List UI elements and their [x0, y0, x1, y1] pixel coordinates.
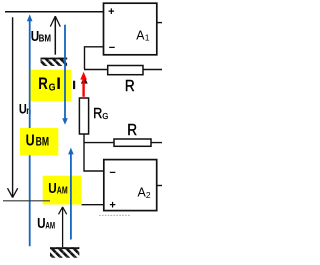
voltage arrow UAM blue (up): [68, 148, 74, 240]
op-amp A2: [104, 160, 157, 212]
svg-text:−: −: [109, 42, 115, 54]
label RG: [93, 105, 102, 121]
wire node to resistor R lower and right edge: [84, 142, 162, 144]
svg-text:−: −: [109, 167, 115, 179]
wire node to resistor R upper and right edge: [84, 69, 162, 71]
highlight box UAM yellow: [43, 176, 82, 205]
voltage arrow U blue input (left, up): [27, 14, 33, 246]
value label RG·I: [38, 75, 48, 94]
resistor R lower (horizontal): [114, 139, 151, 146]
label R (lower): [127, 122, 137, 139]
svg-text:R: R: [127, 122, 137, 139]
value label UBM (in box): [26, 132, 35, 150]
svg-text:G: G: [102, 112, 108, 121]
wire RG bottom to A2 inverting input: [84, 134, 104, 171]
svg-text:R: R: [125, 78, 135, 95]
svg-text:U: U: [26, 132, 35, 150]
voltage arrow UAM (black, up, bottom): [59, 207, 67, 247]
label I: [73, 81, 75, 89]
wire UAM node to A2 noninverting input: [82, 204, 104, 206]
label UBM (top): [31, 28, 39, 45]
current arrow I (red): [80, 72, 87, 97]
node Un label: [19, 101, 27, 117]
svg-text:G: G: [49, 82, 56, 94]
label R (upper): [125, 78, 135, 95]
svg-text:AM: AM: [45, 220, 55, 231]
resistor RG (vertical): [79, 98, 88, 134]
artifact dashed mark below A2: [99, 214, 130, 216]
voltage arrow UBM (black, up): [50, 16, 60, 55]
value label UAM (in box): [48, 180, 56, 197]
wire A1 output: [157, 22, 162, 24]
svg-text:R: R: [38, 75, 48, 94]
svg-text:2: 2: [146, 190, 151, 200]
op-amp A1: [104, 3, 157, 55]
svg-text:1: 1: [145, 32, 150, 42]
wire A1 inverting input to node: [85, 47, 104, 69]
svg-text:BM: BM: [36, 137, 49, 149]
svg-text:R: R: [93, 105, 102, 121]
svg-text:U: U: [48, 180, 56, 197]
svg-text:I: I: [56, 74, 61, 93]
resistor R upper (horizontal): [108, 66, 143, 75]
highlight box UBM yellow: [20, 128, 58, 155]
wire top rail: [5, 11, 104, 13]
svg-text:+: +: [108, 6, 114, 18]
svg-text:+: +: [109, 199, 115, 211]
svg-text:BM: BM: [39, 33, 51, 44]
ground hatch lower: [50, 247, 79, 257]
label UAM (bottom): [37, 215, 45, 232]
voltage arrow UBM blue (down): [62, 25, 68, 125]
node line bottom-left: [3, 200, 50, 202]
svg-text:AM: AM: [57, 184, 68, 196]
svg-text:U: U: [37, 215, 45, 232]
current arrow I (black under red): [81, 76, 88, 84]
voltage arrow Un total (black, down): [8, 17, 18, 197]
svg-text:A: A: [136, 28, 145, 42]
wire A2 output: [157, 185, 162, 187]
highlight box RGI yellow: [31, 70, 72, 101]
ground hatch upper: [41, 58, 68, 66]
